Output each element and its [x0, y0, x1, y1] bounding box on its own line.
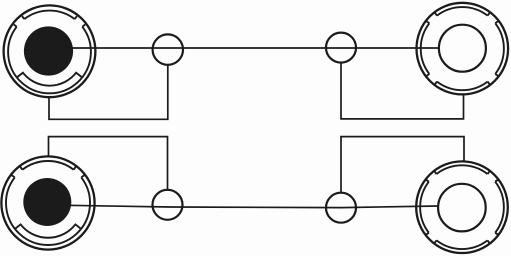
connector J2 bottom inner arc [15, 224, 81, 237]
connector J3 (RCA jack, top-right): outer shell [417, 3, 509, 95]
connector J1 center pin (filled) [24, 26, 73, 75]
connector J3 center socket (open circle) [439, 25, 486, 72]
connector J2 center pin (filled) [23, 178, 71, 226]
connector J4 (RCA jack, bottom-right): outer shell [416, 161, 508, 253]
connector J2 key ticks [12, 167, 85, 178]
connector J4 ring with key notches [420, 165, 504, 249]
connector J3 key ticks [426, 13, 498, 85]
connector J3 ring with key notches [421, 7, 504, 90]
connector J1 bottom inner arc [17, 73, 82, 86]
connector J1 ring with key notches [8, 11, 91, 94]
connector J1 (RCA plug, top-left): outer shell [4, 5, 96, 97]
connector J1 key ticks [14, 16, 85, 27]
wire: node D up-left-down from jack J4 shield [341, 137, 464, 193]
wire: J2 shield up-right-down to node C [49, 137, 168, 190]
wire: bottom signal wire from plug J2 tip to jack J4 tip [58, 205, 438, 207]
connector J4 center socket (open circle) [438, 184, 486, 232]
wire: J1 shield down-right-up to node A [49, 65, 168, 120]
wire: node B down-right-up to jack J3 shield [341, 63, 464, 119]
connector J2 (RCA plug, bottom-left): outer shell [1, 156, 94, 249]
connector J4 key ticks [426, 171, 498, 243]
wire: top signal wire from plug J1 tip to jack J3 tip [58, 47, 439, 49]
node A (junction circle on top wire, left) [153, 34, 183, 64]
node B (junction circle on top wire, right) [326, 33, 356, 63]
connector J2 ring with key notches [6, 161, 90, 245]
node D (junction circle on bottom wire, right) [326, 193, 356, 223]
node C (junction circle on bottom wire, left) [153, 190, 183, 220]
